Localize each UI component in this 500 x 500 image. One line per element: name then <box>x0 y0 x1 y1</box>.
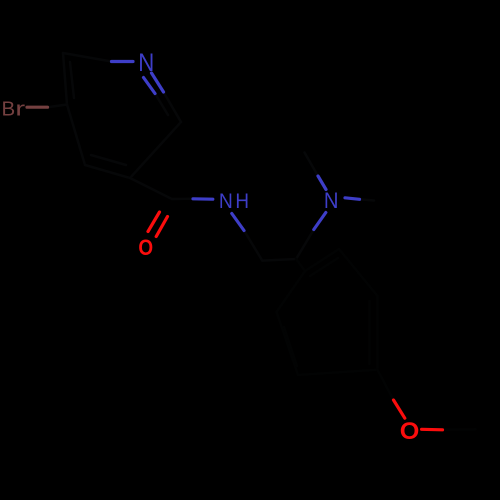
wire amideC-NH blue half <box>193 197 213 201</box>
wire C3'=C4' inner line <box>368 301 371 364</box>
wire C5'=C6' inner line <box>284 327 297 366</box>
wire N1=C2 inner blue half <box>144 78 156 94</box>
wire Nam-CH3right carbon half <box>360 199 375 200</box>
wire N1=C2 main blue half <box>152 73 164 92</box>
wire C3=C4 inner line <box>91 155 126 165</box>
wire CHb-Nam blue half <box>314 213 326 230</box>
wire Nam-CH3up blue half <box>318 176 326 190</box>
wire CHb-C1' <box>296 259 305 271</box>
wire C5-C4 <box>67 105 85 166</box>
wire CHb-Nam carbon half <box>296 230 314 260</box>
wire C4'-O red half <box>394 400 405 418</box>
svg-text:O: O <box>138 235 153 260</box>
wire C6-C5 <box>63 53 67 105</box>
wire C4'-O carbon half <box>377 370 393 400</box>
wire N1=C2 inner carbon half <box>155 94 168 116</box>
bromine bond Br-C5 <box>27 106 48 109</box>
wire C=O red line 1 <box>148 212 160 232</box>
benzene ring <box>277 249 378 375</box>
svg-text:B: B <box>1 98 15 121</box>
wire C5-Br carbon tip <box>48 105 68 108</box>
wire O-CH3 red half <box>422 428 443 432</box>
wire O-CH3 carbon half <box>443 428 476 431</box>
wire C=O red line 2 <box>156 217 167 237</box>
wire C3-C2 <box>130 122 181 178</box>
wire N1-C6 carbon half <box>63 53 112 62</box>
wire amideC-NH carbon half <box>172 198 193 201</box>
svg-text:N: N <box>219 189 233 213</box>
svg-text:r: r <box>15 98 25 120</box>
wire CHa-CHb <box>262 259 296 261</box>
wire NH-CHa carbon half <box>244 231 262 261</box>
svg-text:O: O <box>400 419 420 445</box>
wire C4-C3 <box>85 165 130 178</box>
wire NH-CHa blue half <box>232 214 244 231</box>
wire N1=C2 main carbon half <box>164 92 182 122</box>
svg-text:H: H <box>235 190 249 213</box>
wire N1-C6 blue half <box>112 60 134 63</box>
wire Nam-CH3right blue half <box>345 198 360 200</box>
wire C3-amideC <box>130 178 172 199</box>
svg-text:N: N <box>138 50 154 78</box>
wire Nam-CH3up carbon half <box>305 153 319 177</box>
wire C5=C6 inner line <box>70 62 74 98</box>
svg-text:N: N <box>324 189 339 213</box>
wire C1'=C2' inner line <box>310 258 338 276</box>
